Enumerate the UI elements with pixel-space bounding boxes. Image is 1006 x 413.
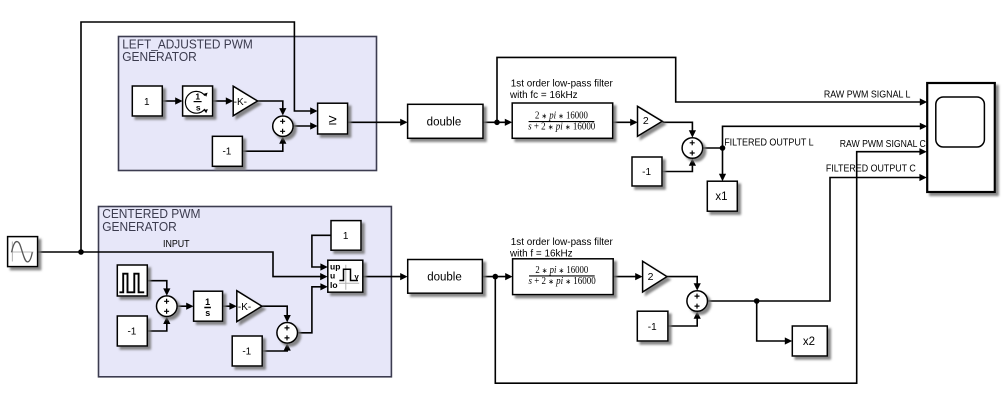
wire junction down to goto x1 [719,148,726,181]
wire constant -1 L to sum L bottom [243,136,287,151]
wire RAW PWM SIGNAL L to scope input 1 [497,57,927,122]
data type conversion double 1 [408,104,483,138]
sum TR [682,138,703,159]
wire double 1 to transfer fn 1 [483,119,512,126]
wire gain -K- to sum L top [258,101,287,116]
svg-text:-1: -1 [242,347,251,358]
sum 1C [157,296,178,317]
gain -K- (left box) [233,86,257,116]
svg-text:double: double [427,117,462,129]
svg-text:FILTERED OUTPUT C: FILTERED OUTPUT C [826,164,916,175]
wire RAW PWM SIGNAL C to scope input 3 [495,148,927,383]
wire sine junction up to relational operator input 1 [81,22,318,252]
transfer fn 2 [513,259,614,295]
svg-text:s: s [205,308,210,318]
data type conversion double 2 [408,260,483,294]
wire sum TR output with FILTERED OUTPUT L branch to scope input 2 [703,123,928,148]
constant -1 C1 [117,316,147,346]
svg-text:x1: x1 [715,191,727,203]
gain -K- C [237,291,262,322]
wire junction down to goto x2 [757,301,793,345]
wire pulse generator to sum 1C top [147,281,170,296]
annotation area LEFT_ADJUSTED PWM GENERATOR [119,37,377,171]
svg-text:2 ∗ pi ∗ 16000: 2 ∗ pi ∗ 16000 [535,265,588,276]
svg-text:1: 1 [195,92,200,102]
svg-text:GENERATOR: GENERATOR [122,50,197,64]
constant 1 (left box) [132,86,162,116]
svg-text:1: 1 [343,231,349,242]
constant 1 C [331,221,361,251]
svg-text:-1: -1 [127,327,136,338]
wire constant 1C to saturation up port [312,235,331,270]
svg-text:x2: x2 [803,336,815,348]
transfer fn 1 [512,103,613,138]
svg-text:u: u [330,270,335,280]
svg-text:y: y [354,273,359,282]
sum 2C [277,323,298,344]
constant -1 (top row) [632,157,662,186]
wire relational operator to double 1 [348,119,408,126]
svg-text:-1: -1 [648,322,657,333]
svg-text:1: 1 [205,297,210,307]
wire double 2 to transfer fn 2 [482,273,512,280]
node sum B junction [754,298,760,304]
gain 2 (top row) [638,106,663,136]
constant -1 (left box) [212,136,242,166]
wire gain 2b to sum B top [667,277,701,291]
svg-text:-K-: -K- [238,302,251,313]
node sum TR junction [720,145,726,151]
svg-text:s: s [196,103,201,113]
svg-text:lo: lo [330,280,338,290]
wire constant -1 TR to sum TR bottom [662,158,696,171]
wire constant -1 C2 to sum 2C bottom [262,343,291,351]
wire integrator to gain -K- [213,97,234,104]
annotation area CENTERED PWM GENERATOR [99,207,392,377]
wire sum L to relational operator input 2 [293,122,317,129]
wire gain 2 to sum TR top [662,122,696,137]
svg-text:2 ∗ pi ∗ 16000: 2 ∗ pi ∗ 16000 [535,111,588,122]
sum B [687,291,708,312]
svg-text:2: 2 [643,115,649,127]
goto x2 [792,326,827,356]
constant -1 (bottom row) [637,311,668,341]
wire gain -K- C to sum 2C top [262,306,291,322]
svg-text:≥: ≥ [328,112,336,129]
svg-text:s + 2 ∗ pi ∗ 16000: s + 2 ∗ pi ∗ 16000 [528,122,595,133]
saturation dynamic [328,260,363,292]
svg-text:with fc = 16kHz: with fc = 16kHz [509,90,578,101]
goto x1 [707,181,737,211]
node double 1 output junction [494,120,500,126]
svg-text:-1: -1 [222,147,231,158]
wire constant -1 B to sum B bottom [668,311,701,326]
svg-text:-1: -1 [642,167,651,178]
wire transfer fn 1 to gain 2 [613,119,638,126]
wire constant 1 to integrator [162,97,182,104]
svg-text:GENERATOR: GENERATOR [102,220,177,234]
pulse generator [117,265,147,296]
gain 2 (bottom row) [643,261,667,292]
integrator wrapped (left box) [183,86,213,116]
wire constant -1 C1 to sum 1C bottom [147,317,170,331]
node double 2 output junction [493,274,499,280]
wire sine-out to INPUT feed [38,252,328,280]
svg-text:RAW PWM SIGNAL C: RAW PWM SIGNAL C [840,139,926,150]
svg-text:1st order low-pass filter: 1st order low-pass filter [511,237,614,248]
sine wave source [8,237,38,267]
svg-text:1st order low-pass filter: 1st order low-pass filter [511,79,614,90]
sum L [273,116,293,136]
svg-text:2: 2 [648,271,654,283]
wire saturation dynamic to double 2 [363,273,408,280]
svg-text:double: double [427,271,462,283]
wire sum B output FILTERED OUTPUT C to scope input 4 [708,174,927,301]
wire sum 2C to saturation lo port [298,283,328,333]
svg-text:INPUT: INPUT [163,239,190,250]
integrator 1/s [194,291,223,321]
wire transfer fn 2 to gain 2b [613,273,642,280]
constant -1 C2 [232,336,262,366]
svg-text:FILTERED OUTPUT L: FILTERED OUTPUT L [724,137,814,148]
wire sum 1C to integrator 1/s [177,303,194,310]
wire integrator 1/s to gain -K- C [223,303,237,310]
svg-text:RAW PWM SIGNAL L: RAW PWM SIGNAL L [824,90,911,101]
svg-text:-K-: -K- [234,97,247,108]
node sine junction [78,249,84,255]
svg-text:s + 2 ∗ pi ∗ 16000: s + 2 ∗ pi ∗ 16000 [529,276,596,287]
svg-text:1: 1 [144,97,150,108]
scope [927,83,995,192]
BLOCKS [8,83,995,366]
svg-text:with f = 16kHz: with f = 16kHz [509,249,573,260]
relational operator >= [318,103,348,134]
